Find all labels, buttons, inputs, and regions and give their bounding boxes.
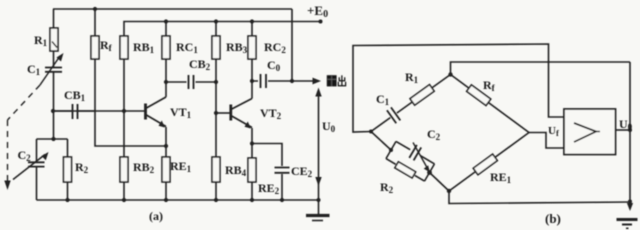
output down arrowhead (b)	[627, 203, 633, 211]
wire bottom return	[449, 191, 630, 204]
svg-text:R1: R1	[405, 70, 419, 85]
wire top feedback rail	[53, 9, 292, 81]
capacitor C0	[261, 74, 267, 88]
svg-text:CE2: CE2	[291, 164, 313, 179]
svg-text:RB2: RB2	[133, 160, 155, 175]
gang dashed line	[8, 85, 41, 183]
resistor RE2	[248, 158, 256, 182]
svg-text:R1: R1	[34, 33, 48, 48]
amplifier triangle symbol	[574, 123, 596, 142]
node Rf top rail junction	[93, 7, 97, 11]
bridge arm top-right (Rf)	[451, 75, 530, 133]
resistor RB4	[212, 157, 220, 182]
svg-text:RB3: RB3	[226, 40, 248, 55]
svg-text:RE2: RE2	[258, 181, 280, 196]
bridge arm bottom-left stubs	[371, 132, 449, 192]
node VT2 base junction	[214, 111, 218, 115]
resistor R1	[50, 28, 58, 51]
svg-text:Rf: Rf	[100, 38, 113, 53]
node feedback-output junction	[290, 79, 294, 83]
capacitor C2 (b)	[409, 145, 421, 160]
node Rf-emitter wire junction	[164, 144, 168, 148]
node amp output junction	[628, 128, 632, 132]
capacitor CB1	[53, 104, 95, 119]
wire VT1 emitter column	[165, 127, 167, 200]
node CB2-RB3 junction	[214, 80, 218, 84]
wire RB3/RB4 column	[215, 22, 217, 201]
U0 up arrowhead	[315, 88, 321, 97]
svg-text:RC1: RC1	[176, 40, 198, 55]
node bottom right junction	[628, 200, 632, 204]
wire ground rail	[37, 199, 319, 201]
svg-text:RB4: RB4	[225, 163, 247, 178]
resistor RC1	[162, 36, 170, 59]
node left bridge	[369, 130, 373, 134]
svg-text:(b): (b)	[545, 211, 561, 226]
svg-text:R2: R2	[380, 180, 394, 195]
ground symbol (a)	[306, 216, 330, 221]
wire right node to amp minus input	[529, 133, 564, 149]
wire top node feed	[451, 62, 631, 75]
resistor RB2	[120, 157, 128, 182]
amplifier box U	[564, 109, 616, 155]
wire CE2 branch	[252, 144, 282, 201]
svg-text:C0: C0	[267, 58, 281, 73]
wire amp output stub	[616, 129, 631, 131]
node R2 ground junction	[65, 198, 69, 202]
node RB4 ground junction	[214, 198, 218, 202]
node RE2 top junction	[250, 141, 254, 145]
svg-text:VT2: VT2	[260, 106, 282, 121]
svg-text:C1: C1	[376, 92, 390, 107]
transistor VT1	[146, 97, 167, 128]
node top bridge	[448, 72, 452, 76]
node CE2 ground junction	[280, 198, 284, 202]
svg-text:CB1: CB1	[64, 88, 86, 103]
wire RC1 column	[165, 22, 167, 98]
wire R1/C1 column	[53, 9, 55, 139]
resistor RC2	[248, 36, 256, 59]
resistor RB3	[212, 36, 220, 59]
svg-text:C2: C2	[18, 148, 32, 163]
resistor R1 (b)	[410, 85, 434, 105]
node RC1 second rail junction	[164, 19, 168, 23]
capacitor CE2	[275, 168, 290, 173]
node parallel-network feed junction	[51, 137, 55, 141]
svg-text:Rf: Rf	[483, 78, 496, 93]
svg-text:C2: C2	[427, 127, 441, 142]
node RC2 second rail junction	[250, 19, 254, 23]
resistor RE1 (b)	[473, 154, 497, 175]
node RE1 ground junction	[164, 198, 168, 202]
gang line arrowhead	[4, 181, 10, 191]
wire C2/R2 parallel network frame	[37, 139, 68, 200]
node C1-base junction	[51, 109, 55, 113]
wire RB1/RB2 column	[123, 59, 125, 200]
capacitor C2	[13, 152, 49, 180]
svg-text:C1: C1	[27, 62, 41, 77]
resistor RB1	[120, 36, 128, 59]
svg-text:CB2: CB2	[189, 57, 211, 72]
wire VT1 base wire	[53, 110, 145, 112]
wire output coupling wire	[252, 80, 313, 82]
bridge arm top-left (R1 C1)	[371, 75, 451, 132]
ground symbol (b)	[617, 220, 638, 229]
resistor RE1	[162, 157, 170, 182]
capacitor C1 (b)	[387, 107, 400, 123]
svg-text:U0: U0	[322, 119, 336, 134]
node RE2 ground junction	[250, 198, 254, 202]
svg-text:+E0: +E0	[307, 3, 328, 20]
node bottom bridge	[447, 189, 451, 193]
wire second supply rail to +E0 terminal	[124, 22, 321, 37]
svg-text:RB1: RB1	[133, 40, 155, 55]
wire VT2 emitter column	[251, 128, 253, 200]
wire Rf column	[95, 9, 166, 146]
node C2R2 right corner	[427, 170, 432, 175]
node output tap junction	[250, 79, 254, 83]
resistor Rf (b)	[467, 85, 491, 106]
node +E0 terminal dot	[319, 20, 323, 24]
U0 down arrowhead	[315, 177, 321, 186]
wire VT2 base wire	[216, 112, 230, 114]
node C2R2 left corner	[389, 148, 393, 152]
svg-text:(a): (a)	[149, 209, 163, 223]
PART B	[353, 44, 630, 204]
svg-text:R2: R2	[75, 160, 89, 175]
capacitor C1	[40, 53, 64, 85]
svg-text:RE1: RE1	[490, 170, 512, 185]
transistor VT2	[231, 99, 252, 129]
wire amp right vertical	[629, 62, 631, 202]
C2R2 parallel frame	[386, 141, 435, 181]
node RB1 base junction	[122, 109, 126, 113]
wire U0 measurement line	[318, 90, 320, 214]
label 输出 output glyphs	[327, 75, 346, 86]
resistor R2 (b)	[395, 162, 416, 178]
C2 variable arrow	[413, 143, 427, 168]
svg-text:RE1: RE1	[170, 159, 192, 174]
wire RC2 column	[251, 22, 253, 99]
wire CB2 coupling wire	[166, 81, 216, 83]
node U0 ground rail junction	[317, 198, 321, 202]
node RB2 ground junction	[122, 198, 126, 202]
bridge arm bottom-right (RE1)	[449, 133, 529, 192]
svg-text:Uf: Uf	[548, 125, 559, 138]
resistor R2	[64, 157, 72, 182]
output terminal arrow	[313, 78, 322, 85]
svg-text:VT1: VT1	[170, 105, 192, 120]
svg-text:RC2: RC2	[264, 40, 286, 55]
capacitor CB2	[189, 75, 194, 89]
node CB2 tap junction	[164, 80, 168, 84]
resistor Rf	[91, 36, 99, 59]
node RB3 second rail junction	[214, 19, 218, 23]
wire left node to amp plus input	[353, 44, 564, 132]
